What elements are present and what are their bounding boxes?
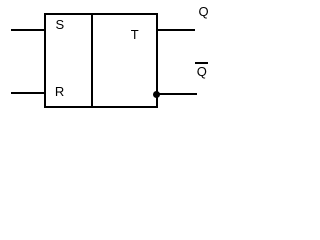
divider between S/R section and T section	[91, 13, 93, 108]
label Q (output)	[199, 5, 209, 18]
label R (reset input pin)	[55, 85, 64, 98]
label S (set input pin)	[56, 18, 65, 31]
wire S input	[11, 29, 44, 31]
wire Qbar output	[158, 93, 197, 95]
overline of Qbar label	[195, 62, 208, 64]
wire Q output	[158, 29, 195, 31]
junction dot on Qbar node	[153, 91, 160, 98]
label Qbar (inverted output)	[197, 65, 207, 78]
flip-flop box U1	[44, 13, 158, 108]
wire R input	[11, 92, 44, 94]
label T (toggle pin)	[131, 28, 139, 41]
